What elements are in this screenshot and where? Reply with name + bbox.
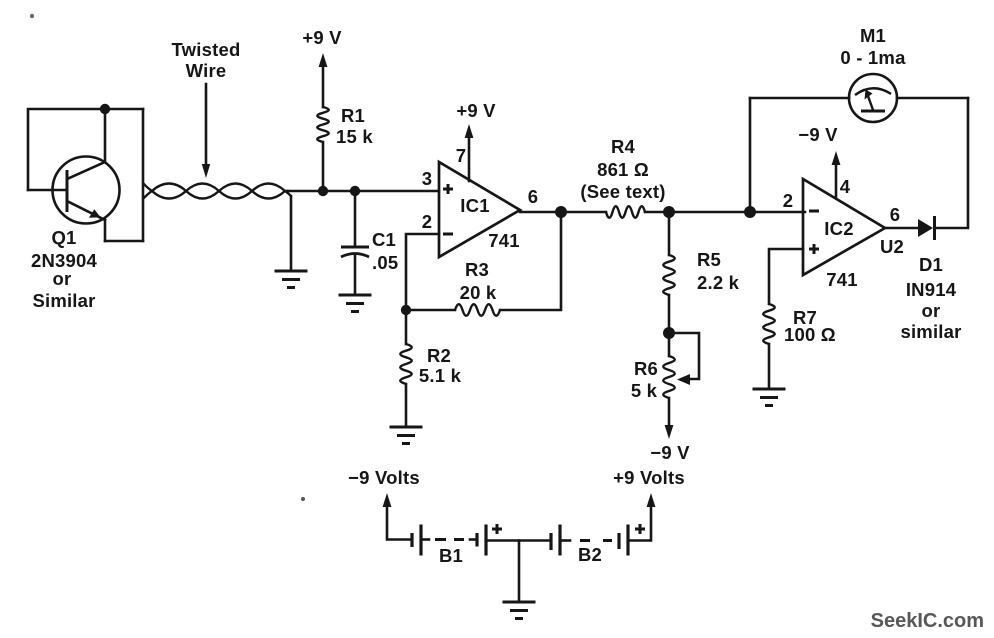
svg-text:R6: R6 <box>634 358 658 379</box>
svg-text:IC2: IC2 <box>824 218 853 239</box>
svg-text:+9 V: +9 V <box>302 27 342 48</box>
svg-text:−9 Volts: −9 Volts <box>348 467 420 488</box>
svg-text:20 k: 20 k <box>460 282 497 303</box>
svg-text:Twisted: Twisted <box>172 39 241 60</box>
svg-text:R4: R4 <box>611 136 636 157</box>
svg-text:7: 7 <box>456 145 467 166</box>
svg-text:2: 2 <box>783 190 794 211</box>
svg-text:−9 V: −9 V <box>798 124 838 145</box>
svg-text:(See text): (See text) <box>580 181 665 202</box>
svg-text:R3: R3 <box>465 259 489 280</box>
svg-text:Q1: Q1 <box>51 227 76 248</box>
svg-text:2: 2 <box>422 211 433 232</box>
svg-text:B2: B2 <box>578 544 602 565</box>
svg-text:+9 V: +9 V <box>456 100 496 121</box>
svg-text:R1: R1 <box>341 105 365 126</box>
svg-text:Similar: Similar <box>32 290 95 311</box>
svg-text:Wire: Wire <box>186 60 227 81</box>
svg-text:+9 Volts: +9 Volts <box>613 467 685 488</box>
svg-text:U2: U2 <box>880 236 904 257</box>
svg-text:4: 4 <box>840 176 851 197</box>
svg-text:741: 741 <box>488 230 519 251</box>
svg-text:R5: R5 <box>697 249 721 270</box>
svg-text:or: or <box>922 300 941 321</box>
svg-text:5.1 k: 5.1 k <box>419 365 462 386</box>
svg-text:5 k: 5 k <box>631 380 658 401</box>
svg-text:.05: .05 <box>372 252 398 273</box>
svg-text:6: 6 <box>528 186 539 207</box>
svg-text:M1: M1 <box>860 25 886 46</box>
svg-text:C1: C1 <box>372 229 396 250</box>
svg-text:741: 741 <box>826 269 857 290</box>
svg-text:15 k: 15 k <box>336 126 373 147</box>
svg-text:−9 V: −9 V <box>650 442 690 463</box>
svg-text:IC1: IC1 <box>460 195 489 216</box>
svg-text:SeekIC.com: SeekIC.com <box>871 610 984 632</box>
svg-text:D1: D1 <box>919 254 943 275</box>
svg-text:100 Ω: 100 Ω <box>784 324 836 345</box>
svg-text:861 Ω: 861 Ω <box>597 159 649 180</box>
svg-text:0 - 1ma: 0 - 1ma <box>840 47 906 68</box>
svg-text:similar: similar <box>900 321 961 342</box>
svg-text:2.2 k: 2.2 k <box>697 272 740 293</box>
svg-text:B1: B1 <box>439 545 463 566</box>
svg-text:3: 3 <box>422 168 433 189</box>
svg-text:IN914: IN914 <box>906 279 957 300</box>
svg-text:or: or <box>53 268 72 289</box>
svg-text:6: 6 <box>890 204 901 225</box>
svg-text:R2: R2 <box>427 345 451 366</box>
